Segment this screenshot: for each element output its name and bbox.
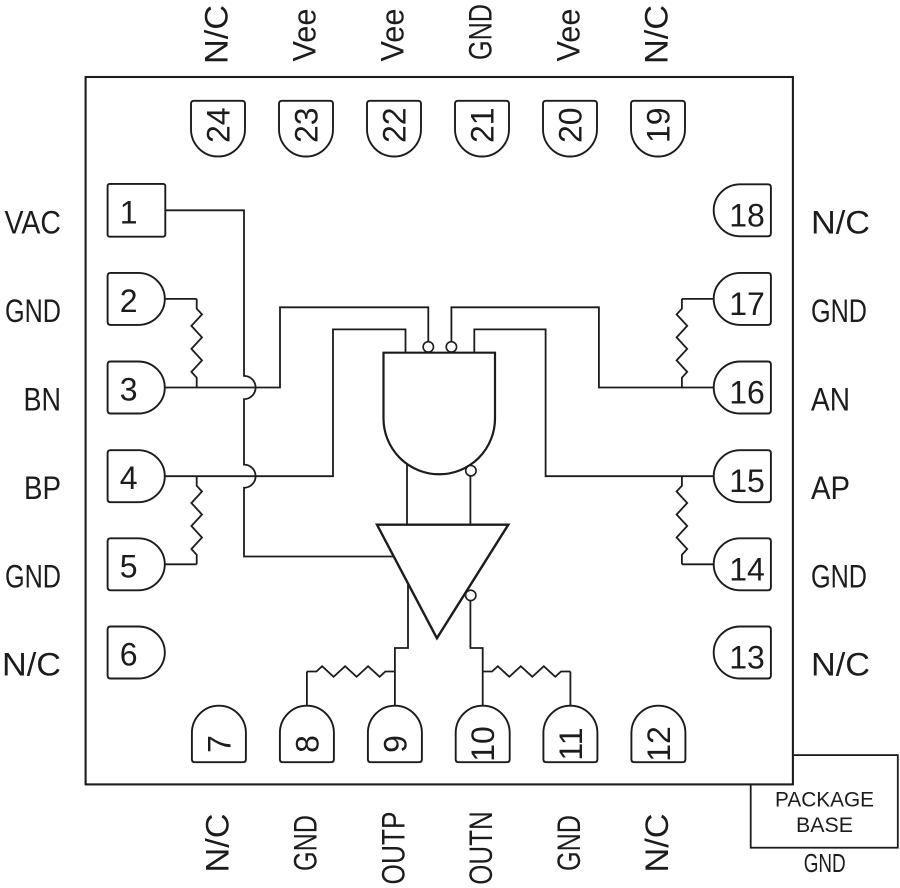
pin 12 pad [631, 706, 685, 763]
svg-text:N/C: N/C [811, 647, 870, 683]
chip outline [86, 77, 793, 784]
svg-text:19: 19 [641, 107, 677, 143]
pin 23 pad [279, 101, 333, 157]
wire VAC: pin1 right, down with hops over BN and BP, into U2 left edge [165, 210, 393, 556]
svg-text:AP: AP [811, 470, 850, 506]
pin 19 pad [631, 101, 685, 157]
svg-text:N/C: N/C [639, 5, 675, 64]
wire BP: pin4 to U1 top input [165, 329, 406, 476]
svg-text:12: 12 [641, 726, 677, 762]
svg-text:10: 10 [465, 726, 501, 762]
pin 17 pad [714, 273, 771, 325]
pin 8 pad [280, 706, 334, 763]
pin 10 pad [456, 706, 510, 763]
pin 22 pad [367, 101, 421, 157]
svg-text:Vee: Vee [375, 9, 411, 62]
svg-text:N/C: N/C [811, 204, 870, 240]
svg-text:GND: GND [287, 815, 323, 871]
svg-text:Vee: Vee [551, 9, 587, 62]
svg-text:3: 3 [120, 372, 138, 408]
svg-text:20: 20 [553, 107, 589, 143]
U1 input bubble (AN) [446, 342, 456, 352]
wire OUTN: U2 output bubble down to pin10 [470, 601, 482, 706]
svg-text:23: 23 [289, 107, 325, 143]
svg-text:16: 16 [729, 375, 765, 411]
wire BN: pin3 to U1 left input bubble [165, 307, 429, 387]
svg-text:GND: GND [463, 4, 499, 60]
svg-text:GND: GND [804, 850, 846, 878]
svg-text:PACKAGE: PACKAGE [775, 788, 874, 812]
svg-text:N/C: N/C [639, 814, 675, 873]
svg-text:GND: GND [811, 558, 867, 594]
wire U1 output (non-inverting) to U2 top [406, 464, 408, 525]
svg-text:6: 6 [120, 637, 138, 673]
pin 15 pad [714, 450, 771, 502]
pin 11 pad [543, 706, 597, 763]
pin 5 pad [108, 538, 165, 590]
wire U1 inverted output to U2 top [469, 476, 471, 525]
svg-text:22: 22 [377, 107, 413, 143]
svg-text:VAC: VAC [5, 204, 62, 240]
pin 14 pad [714, 538, 771, 590]
pin 18 pad [714, 184, 771, 236]
svg-text:5: 5 [120, 548, 138, 584]
pin 16 pad [714, 362, 771, 414]
svg-text:BN: BN [24, 382, 62, 418]
svg-text:1: 1 [120, 194, 138, 230]
resistor R2 (BP to pin5 GND) [191, 476, 202, 564]
svg-text:2: 2 [120, 283, 138, 319]
svg-text:BP: BP [24, 470, 61, 506]
svg-text:18: 18 [729, 197, 765, 233]
U1 output bubble (inverting, lower right) [466, 466, 476, 476]
resistor R4 (AP to pin14 GND) [677, 476, 688, 564]
resistor R3 (pin17 GND to AN) [682, 298, 714, 300]
resistor R6 (OUTN to pin11 GND) [483, 666, 571, 677]
svg-text:8: 8 [289, 735, 325, 753]
wire AP: pin15 to U1 top input [474, 329, 713, 476]
package base box [751, 755, 898, 848]
resistor R1 (pin2 GND to BN) [165, 298, 197, 300]
svg-text:7: 7 [201, 735, 237, 753]
svg-text:9: 9 [377, 735, 413, 753]
svg-text:BASE: BASE [796, 813, 853, 837]
svg-text:21: 21 [465, 107, 501, 143]
wire OUTP: U2 left edge tap down to pin9 [395, 583, 408, 705]
svg-text:14: 14 [729, 551, 765, 587]
svg-text:15: 15 [729, 463, 765, 499]
pin 13 pad [714, 627, 771, 679]
pin 4 pad [108, 450, 165, 502]
svg-text:GND: GND [811, 293, 867, 329]
pin 2 pad [108, 273, 165, 325]
gate U1 body [384, 353, 496, 475]
resistor R5 (pin8 GND to OUTP) [306, 672, 308, 706]
svg-text:4: 4 [120, 460, 138, 496]
U1 input bubble (BN) [423, 342, 433, 352]
svg-text:AN: AN [811, 382, 850, 418]
pin 9 pad [368, 706, 422, 763]
pin 3 pad [108, 362, 165, 414]
svg-text:17: 17 [729, 286, 765, 322]
svg-text:N/C: N/C [199, 814, 235, 873]
svg-text:11: 11 [553, 727, 589, 760]
pin 21 pad [455, 101, 509, 157]
U2 output bubble (inverting, right edge) [466, 590, 476, 600]
svg-text:N/C: N/C [199, 5, 235, 64]
svg-text:GND: GND [551, 815, 587, 871]
amplifier U2 (triangle) [377, 525, 508, 639]
pin 6 pad [108, 627, 165, 679]
pin 1 pad (square) [108, 184, 166, 237]
pin 20 pad [543, 101, 597, 157]
svg-text:OUTP: OUTP [375, 812, 411, 885]
wire AN: pin16 to U1 right input bubble [451, 307, 713, 387]
svg-text:Vee: Vee [287, 9, 323, 62]
svg-text:13: 13 [729, 640, 765, 676]
svg-text:N/C: N/C [2, 647, 61, 683]
pin 24 pad [191, 101, 245, 157]
svg-text:GND: GND [5, 293, 61, 329]
svg-text:OUTN: OUTN [463, 811, 499, 885]
svg-text:GND: GND [5, 558, 61, 594]
svg-text:24: 24 [201, 107, 237, 143]
pin 7 pad [192, 706, 246, 763]
